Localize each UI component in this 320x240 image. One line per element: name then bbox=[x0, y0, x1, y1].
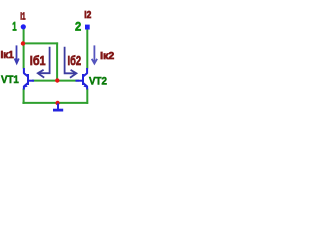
transistor VT2 bbox=[76, 68, 88, 90]
node 2 terminal square bbox=[85, 25, 90, 30]
svg-text:Iб2: Iб2 bbox=[68, 53, 82, 68]
wire base rail bbox=[32, 80, 79, 82]
wire horizontal from junction A to middle drop bbox=[22, 42, 58, 44]
current arrow Ib2 bbox=[65, 47, 77, 78]
svg-text:Iк1: Iк1 bbox=[1, 50, 15, 61]
wire VT1 emitter down to bottom rail bbox=[23, 89, 25, 104]
svg-text:2: 2 bbox=[75, 20, 81, 34]
node 1 terminal dot bbox=[21, 24, 26, 29]
wire from node 1 down to VT1 collector bbox=[22, 29, 88, 104]
wire VT2 emitter down to bottom rail bbox=[86, 89, 88, 104]
node B junction dot (base rail) bbox=[55, 78, 59, 82]
ground terminal bbox=[53, 104, 63, 111]
current arrow Ik2 bbox=[92, 45, 97, 63]
transistor VT1 bbox=[23, 68, 34, 90]
node A junction dot bbox=[21, 41, 25, 45]
svg-text:VT2: VT2 bbox=[89, 75, 107, 87]
current arrow Ib1 bbox=[38, 47, 50, 78]
node C junction dot (bottom rail) bbox=[55, 101, 59, 105]
current arrow Ik1 bbox=[15, 45, 19, 63]
svg-text:VT1: VT1 bbox=[1, 74, 19, 86]
wire middle vertical drop to base rail bbox=[56, 42, 58, 80]
svg-text:Iб1: Iб1 bbox=[30, 53, 46, 68]
svg-text:I2: I2 bbox=[84, 10, 91, 21]
svg-text:I1: I1 bbox=[20, 11, 26, 22]
wire bottom rail bbox=[22, 102, 88, 104]
svg-text:Iк2: Iк2 bbox=[100, 51, 114, 62]
svg-text:1: 1 bbox=[12, 20, 17, 34]
wire from node 2 down to VT2 collector bbox=[86, 30, 88, 69]
